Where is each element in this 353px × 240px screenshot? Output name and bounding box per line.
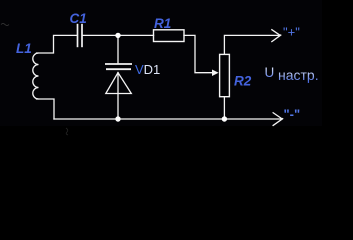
wire: R1 right to R2 wiper elbow	[184, 35, 213, 72]
node A: junction C1/VD1 top	[115, 33, 120, 38]
node B: junction VD1 bottom	[115, 116, 120, 121]
arrow output plus	[271, 29, 281, 42]
svg-text:R2: R2	[234, 73, 252, 88]
varicap diode VD1	[105, 64, 132, 94]
svg-text:"+": "+"	[283, 25, 300, 40]
wire: R2 top up and right to plus arrow	[224, 35, 279, 54]
node C: junction R2 bottom	[222, 116, 227, 121]
svg-text:VD1: VD1	[135, 62, 160, 77]
artifact mark bottom	[66, 128, 68, 135]
wire: bottom bus	[54, 118, 282, 120]
potentiometer R2 wiper arrowhead	[212, 70, 219, 77]
resistor R1	[154, 30, 185, 42]
wire: VD1 top vertical	[117, 35, 119, 63]
arrow output minus	[273, 112, 284, 125]
svg-text:C1: C1	[70, 11, 87, 26]
inductor L1	[33, 53, 39, 99]
svg-text:настр.: настр.	[278, 67, 319, 83]
wire: VD1 bottom vertical through triangle	[117, 73, 119, 119]
artifact mark left edge	[1, 24, 9, 26]
capacitor C1	[78, 24, 83, 47]
wire: L1 bottom jog to bottom bus corner	[37, 99, 55, 119]
svg-text:R1: R1	[154, 16, 171, 31]
svg-text:"-": "-"	[284, 107, 301, 122]
svg-text:L1: L1	[16, 41, 32, 56]
svg-text:U: U	[265, 65, 275, 80]
wire: top-left corner from L1 top to C1	[37, 35, 77, 53]
wire: R2 bottom to bottom bus	[223, 97, 225, 119]
potentiometer R2 body	[220, 54, 230, 96]
wire: C1 right plate to R1 left (through node)	[82, 34, 153, 36]
